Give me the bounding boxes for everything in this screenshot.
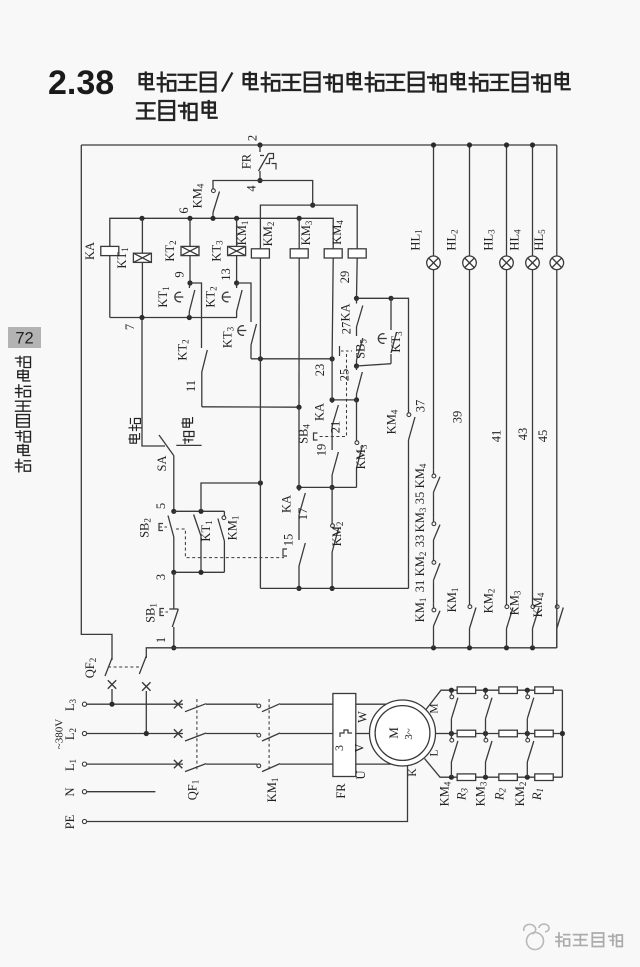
contactor KM1 main pole L2 bbox=[257, 733, 261, 737]
wire lamp branch HL3 bbox=[506, 145, 508, 256]
node rail6/KT1 bbox=[139, 216, 144, 221]
wire FR to motor W bbox=[356, 703, 387, 705]
resistor row1 stage 3 bbox=[457, 687, 476, 694]
wire node4 to KM4 contact branch bbox=[213, 181, 260, 185]
svg-text:17: 17 bbox=[296, 508, 310, 521]
wire FR to motor V bbox=[356, 733, 370, 735]
pushbutton SB2 (start) bbox=[173, 511, 175, 513]
svg-text:L1: L1 bbox=[63, 759, 78, 771]
sidebar page number 72 bbox=[8, 327, 41, 348]
contactor coil KM1 bbox=[251, 249, 269, 258]
title line 2 (Chinese) bbox=[137, 103, 155, 118]
node bus/HL3 chain bbox=[504, 645, 509, 650]
contact KM3 (aux, 25col down) bbox=[356, 400, 358, 441]
neutral terminal N bbox=[82, 790, 86, 794]
phase terminal L2 bbox=[82, 731, 86, 735]
svg-text:35: 35 bbox=[413, 492, 427, 505]
contact KA (27) bbox=[356, 298, 358, 303]
node A (29 junction) bbox=[354, 296, 359, 301]
node rotor row1 col KM4 bbox=[449, 688, 454, 693]
node rail5/KT1 contact bbox=[198, 509, 203, 514]
timer coil KT2 bbox=[181, 246, 199, 255]
svg-text:KA: KA bbox=[280, 495, 294, 513]
svg-text:1: 1 bbox=[154, 637, 168, 643]
thermal overload contact FR bbox=[259, 145, 261, 152]
svg-text:N: N bbox=[63, 787, 77, 796]
rotor mid wire bbox=[436, 733, 452, 735]
wire y=588 link rail bbox=[260, 587, 408, 589]
svg-text:33: 33 bbox=[413, 535, 427, 548]
node rail7/KT1 delay contact bbox=[187, 315, 192, 320]
svg-text:KM2: KM2 bbox=[482, 589, 497, 614]
watermark text (Chinese) bbox=[556, 933, 570, 947]
svg-text:2.38: 2.38 bbox=[48, 64, 114, 102]
svg-text:KT2: KT2 bbox=[204, 286, 219, 307]
node KM1-column / y359 junction bbox=[258, 356, 263, 361]
node rail6/KM2 bbox=[297, 216, 302, 221]
node rail7/KT1 branch bbox=[139, 315, 144, 320]
svg-text:27: 27 bbox=[340, 322, 354, 335]
svg-text:45: 45 bbox=[536, 430, 550, 443]
node rail6/KT2 bbox=[187, 216, 192, 221]
svg-text:23: 23 bbox=[313, 364, 327, 377]
node bus/HL1 chain bbox=[431, 645, 436, 650]
phase terminal L1 bbox=[82, 762, 86, 766]
node rotor row3 col KM2 bbox=[525, 775, 530, 780]
contact KM1 (self hold) bbox=[223, 511, 225, 516]
pushbutton SB5 bbox=[356, 327, 358, 336]
resistor row2 stage 2 bbox=[499, 730, 517, 737]
svg-text:SB2: SB2 bbox=[138, 518, 153, 538]
node 4 bbox=[257, 178, 262, 183]
pushbutton SB1 (stop, NC) bbox=[173, 572, 175, 603]
node 13 bbox=[234, 280, 239, 285]
contact KM3 on HL4 branch bbox=[532, 600, 534, 605]
svg-text:3: 3 bbox=[154, 574, 168, 580]
svg-text:29: 29 bbox=[338, 271, 352, 284]
svg-text:11: 11 bbox=[184, 380, 198, 392]
svg-text:QF2: QF2 bbox=[83, 658, 98, 678]
thermal relay FR box bbox=[333, 694, 356, 777]
wire KM3 coil to node 23 bbox=[332, 258, 333, 359]
node rail3/KT1 bbox=[198, 570, 203, 575]
contact KM2 rotor short (rows 1-2) bbox=[526, 690, 528, 695]
wire KT3 contact to node 23 bbox=[251, 358, 332, 360]
relay coil KA bbox=[101, 246, 119, 255]
wire FR to motor U bbox=[356, 763, 392, 765]
svg-text:KA: KA bbox=[83, 242, 97, 260]
svg-text:KT2: KT2 bbox=[163, 240, 178, 261]
svg-text:19: 19 bbox=[315, 444, 329, 457]
svg-text:15: 15 bbox=[282, 534, 296, 547]
contact SB4b (node25 down) bbox=[356, 366, 358, 370]
svg-text:V: V bbox=[353, 743, 367, 752]
wire link 23col-25col (y=400) bbox=[332, 399, 356, 401]
contact chain KM2 bbox=[433, 556, 435, 561]
svg-text:L3: L3 bbox=[63, 698, 78, 711]
wire lamp branch HL4 bbox=[532, 145, 534, 256]
resistor row1 stage 2 bbox=[499, 687, 517, 694]
phase terminal L3 bbox=[82, 702, 86, 706]
svg-text:KM4: KM4 bbox=[330, 220, 345, 245]
contact KM4 rotor short (rows 1-2) bbox=[450, 690, 452, 695]
svg-text:KM1: KM1 bbox=[226, 516, 241, 541]
wire KM4 coil to node A (29) bbox=[356, 258, 359, 299]
node 2 bbox=[257, 142, 262, 147]
contact KM4 rotor short (rows 2-3) bbox=[450, 734, 452, 739]
svg-text:KM1: KM1 bbox=[413, 598, 428, 623]
node rotor row1 col KM2 bbox=[525, 688, 530, 693]
wire phase L3 run bbox=[87, 703, 183, 705]
svg-text:KT2: KT2 bbox=[176, 339, 191, 360]
svg-text:KM3: KM3 bbox=[474, 781, 489, 806]
motor M 3-phase bbox=[370, 700, 436, 766]
wire node5 rail bbox=[174, 510, 225, 512]
signal lamp HL3 bbox=[500, 256, 514, 270]
selector switch SA bbox=[159, 435, 174, 456]
contact KA (17) bbox=[298, 487, 300, 491]
label auto (Chinese) bbox=[129, 419, 141, 444]
wire nodeA branch to KM4(37) column bbox=[391, 298, 409, 413]
svg-text:13: 13 bbox=[219, 268, 233, 281]
svg-text:6: 6 bbox=[177, 207, 191, 213]
node rotor row2 col KM2 bbox=[525, 731, 530, 736]
signal lamp HL2 bbox=[463, 256, 477, 270]
svg-text:FR: FR bbox=[334, 783, 348, 799]
node KM1 column y=483 bbox=[258, 480, 263, 485]
contact KM1 on HL2 branch bbox=[469, 600, 471, 605]
svg-text:21: 21 bbox=[329, 421, 343, 434]
contact KM4 (37 column) bbox=[407, 413, 411, 417]
svg-text:31: 31 bbox=[413, 580, 427, 593]
node KM2col y=487 bbox=[296, 485, 301, 490]
wire phase L2 run bbox=[87, 733, 183, 735]
svg-text:41: 41 bbox=[490, 430, 504, 443]
svg-text:M: M bbox=[386, 727, 401, 739]
svg-text:PE: PE bbox=[63, 814, 77, 829]
contact KM2 rotor short (rows 2-3) bbox=[526, 734, 528, 739]
svg-text:KM1: KM1 bbox=[265, 778, 280, 803]
wire coil feeder y=205 (KM1, KM4 coils) bbox=[260, 205, 357, 249]
contact chain KM1 bbox=[433, 604, 435, 608]
node rotor row3 col KM3 bbox=[483, 775, 488, 780]
node 1 bbox=[171, 645, 176, 650]
node on coil feeder y=205 bbox=[310, 203, 315, 208]
node rail6/KT3 bbox=[234, 216, 239, 221]
contact KT2 (11) bbox=[202, 350, 208, 372]
wire rotor star link (right) bbox=[561, 690, 563, 777]
svg-text:2: 2 bbox=[246, 135, 260, 141]
watermark logo bbox=[524, 924, 549, 949]
wire node13 to KT3 delayed contact bbox=[237, 283, 251, 322]
title line 1 (Chinese) bbox=[140, 73, 154, 90]
resistor row3 stage 3 bbox=[457, 774, 476, 781]
contactor coil KM4 bbox=[348, 249, 366, 258]
node bus/HL3 bbox=[504, 142, 509, 147]
svg-text:SA: SA bbox=[155, 456, 169, 472]
wire left frame vertical bbox=[81, 145, 112, 660]
contact KA (21) bbox=[331, 400, 333, 403]
timer coil KT1 bbox=[133, 253, 151, 262]
wire KT3 coil to node 13 bbox=[236, 256, 238, 283]
svg-text:KM4: KM4 bbox=[531, 592, 546, 617]
svg-text:KT3: KT3 bbox=[221, 326, 236, 348]
svg-text:KM4: KM4 bbox=[413, 463, 428, 488]
wire KT1 coil to rail 7 bbox=[141, 263, 143, 318]
wire KM1 coil column (long) bbox=[259, 258, 261, 589]
pushbutton SB4 bbox=[332, 452, 338, 475]
node star mid bbox=[560, 731, 565, 736]
signal lamp HL1 bbox=[427, 256, 441, 270]
contact KM3 rotor short (rows 1-2) bbox=[485, 690, 487, 695]
node KT3 branch top bbox=[388, 296, 393, 301]
svg-text:SB1: SB1 bbox=[144, 603, 159, 623]
svg-text:KM2: KM2 bbox=[330, 522, 345, 547]
svg-text:43: 43 bbox=[516, 428, 530, 441]
wire rotor row 2 bbox=[451, 733, 562, 735]
svg-text:37: 37 bbox=[414, 400, 428, 413]
node SB3 bottom bbox=[296, 586, 301, 591]
node 5 bbox=[171, 509, 176, 514]
contact KM2 on HL3 branch bbox=[506, 600, 508, 605]
contactor coil KM3 bbox=[324, 249, 342, 258]
mech linkage SB2 (dashed) bbox=[176, 529, 284, 558]
wire rotor row 1 bbox=[451, 689, 562, 691]
node 23col y=400 bbox=[330, 397, 335, 402]
contactor KM1 main pole L3 bbox=[257, 704, 261, 708]
svg-text:KM3: KM3 bbox=[413, 507, 428, 532]
node rotor row2 col KM3 bbox=[483, 731, 488, 736]
circuit breaker QF2 (2-pole) bbox=[105, 658, 112, 676]
node rotor row2 col KM4 bbox=[449, 731, 454, 736]
mech linkage QF1 (dashed) bbox=[196, 699, 198, 771]
delayed contact KT3 bbox=[238, 326, 244, 336]
svg-text:HL2: HL2 bbox=[445, 229, 460, 250]
wire neutral N bbox=[87, 791, 156, 793]
svg-text:KM2: KM2 bbox=[413, 552, 428, 577]
node rotor row3 col KM4 bbox=[449, 775, 454, 780]
node SB4 bottom (y=487) bbox=[330, 485, 335, 490]
node KM2 aux bottom bbox=[330, 586, 335, 591]
svg-text:W: W bbox=[356, 711, 370, 723]
pushbutton SB3 bbox=[299, 543, 305, 566]
svg-text:KM4: KM4 bbox=[438, 781, 453, 806]
svg-text:4: 4 bbox=[245, 185, 259, 192]
node 25-KM3 link right bbox=[354, 397, 359, 402]
signal lamp HL5 bbox=[550, 256, 564, 270]
mech linkage SB4/SB5 (dashed) bbox=[318, 354, 347, 437]
breaker QF1 pole L1 bbox=[174, 760, 182, 768]
svg-text:L: L bbox=[429, 749, 441, 756]
breaker QF1 pole L2 bbox=[174, 729, 182, 737]
svg-text:KT1: KT1 bbox=[156, 286, 171, 307]
delayed contact KT2 (node13 to rail7) bbox=[236, 283, 238, 288]
node bus/HL2 bbox=[467, 142, 472, 147]
node 25 bbox=[354, 363, 359, 368]
svg-text:U: U bbox=[354, 770, 368, 779]
wire lamp branch HL2 bbox=[469, 145, 471, 256]
wire rail 6 (coil rail) bbox=[110, 218, 333, 249]
svg-text:39: 39 bbox=[451, 411, 465, 424]
svg-text:FR: FR bbox=[240, 153, 254, 169]
resistor row3 stage 1 bbox=[535, 774, 554, 781]
breaker QF1 pole L3 bbox=[174, 700, 182, 708]
svg-text:KM3: KM3 bbox=[508, 590, 523, 615]
wire top bus (phase, node 2 rail) bbox=[81, 144, 557, 146]
svg-text:QF1: QF1 bbox=[186, 780, 201, 800]
svg-text:3~: 3~ bbox=[403, 728, 415, 740]
svg-text:KM4: KM4 bbox=[385, 409, 400, 434]
node QF2/L2 bbox=[144, 731, 149, 736]
wire lamp branch HL5 bbox=[556, 145, 558, 256]
svg-text:KM2: KM2 bbox=[261, 222, 276, 247]
wire node4 right to KM1/KM4 coil feeder bbox=[260, 181, 313, 206]
svg-text:K: K bbox=[407, 768, 419, 777]
mech linkage QF2 (dashed) bbox=[108, 666, 142, 668]
svg-text:HL5: HL5 bbox=[532, 229, 547, 251]
wire rail7 down to SA (auto position) bbox=[142, 318, 165, 447]
node QF2/L3 bbox=[109, 702, 114, 707]
svg-text:7: 7 bbox=[123, 324, 137, 330]
node 3 bbox=[171, 570, 176, 575]
wire bottom control bus bbox=[146, 648, 557, 658]
wire KT3 branch bottom to node25 bbox=[357, 364, 392, 366]
node bus/HL4 chain bbox=[530, 645, 535, 650]
svg-text:KM4: KM4 bbox=[191, 183, 206, 208]
wire rotor row 3 bbox=[451, 776, 562, 778]
wire y=487 link bbox=[299, 486, 357, 488]
svg-text:KM1: KM1 bbox=[235, 221, 250, 246]
svg-text:R3: R3 bbox=[455, 787, 470, 801]
contact KM3 rotor short (rows 2-3) bbox=[485, 734, 487, 739]
delayed contact KT3 (parallel) bbox=[390, 298, 392, 330]
svg-text:72: 72 bbox=[15, 330, 33, 348]
svg-text:KT1: KT1 bbox=[199, 520, 214, 541]
wire KT1-top link to KM1 column (y=483) bbox=[201, 483, 260, 511]
resistor row3 stage 2 bbox=[499, 774, 517, 781]
node bus/HL2 chain bbox=[467, 645, 472, 650]
wire phase L1 run bbox=[87, 763, 183, 765]
svg-text:~380V: ~380V bbox=[54, 719, 66, 749]
resistor row2 stage 3 bbox=[457, 730, 476, 737]
contactor KM1 main pole L1 bbox=[257, 764, 261, 768]
wire nodeA to KT3 parallel branch bbox=[357, 297, 392, 299]
wire KT2 coil to node 9 bbox=[189, 256, 191, 283]
svg-text:3: 3 bbox=[332, 745, 346, 751]
label manual (Chinese) bbox=[182, 418, 194, 444]
resistor row2 stage 1 bbox=[535, 730, 554, 737]
svg-text:KM3: KM3 bbox=[354, 444, 369, 469]
contact KM4 (NO, feeds rail 6) bbox=[212, 184, 214, 189]
svg-text:KM1: KM1 bbox=[445, 588, 460, 613]
svg-text:KT3: KT3 bbox=[210, 240, 225, 262]
svg-text:KT3: KT3 bbox=[389, 331, 404, 353]
contact KT1 (instant, node5-node3) bbox=[194, 515, 201, 537]
node bus/HL1 bbox=[431, 142, 436, 147]
node rail6/KM4 contact bbox=[210, 216, 215, 221]
wire node9 to KT2(11) branch bbox=[190, 283, 202, 348]
contact chain KM3 bbox=[433, 518, 435, 522]
wire lamp branch HL1 bbox=[433, 145, 435, 256]
earth terminal PE bbox=[82, 819, 86, 823]
wire KM2 coil column down bbox=[298, 258, 300, 407]
svg-text:KA: KA bbox=[313, 403, 327, 421]
svg-text:R1: R1 bbox=[530, 788, 545, 801]
contact KM4 on HL5 branch bbox=[556, 600, 558, 605]
svg-text:9: 9 bbox=[173, 271, 187, 277]
contact KM2 (aux) bbox=[331, 487, 333, 524]
svg-text:SB5: SB5 bbox=[354, 339, 369, 359]
rotor terminal L wire bbox=[425, 759, 452, 778]
wire node23 down bbox=[331, 359, 333, 400]
node KM2col/KT2-11 bbox=[296, 405, 301, 410]
svg-text:KA: KA bbox=[339, 303, 353, 321]
wire KT2(11) to KM2 column bbox=[202, 406, 299, 408]
svg-text:R2: R2 bbox=[493, 787, 508, 801]
wire lamp branch HL5 lower bbox=[556, 600, 558, 648]
rotor terminal M wire bbox=[426, 690, 451, 709]
signal lamp HL4 bbox=[526, 256, 540, 270]
node rotor row1 col KM3 bbox=[483, 688, 488, 693]
mech linkage KM1 main (dashed) bbox=[268, 699, 270, 771]
wire node3 rail bbox=[174, 571, 225, 573]
timer coil KT3 bbox=[228, 246, 246, 255]
resistor row1 stage 1 bbox=[535, 687, 554, 694]
sidebar vertical book title (Chinese) bbox=[16, 356, 31, 367]
node bus/HL4 bbox=[530, 142, 535, 147]
svg-text:KM2: KM2 bbox=[513, 782, 528, 807]
node 9 bbox=[187, 280, 192, 285]
svg-text:5: 5 bbox=[154, 503, 168, 509]
svg-text:HL3: HL3 bbox=[482, 229, 497, 251]
delayed contact KT1 (node9 to rail7) bbox=[188, 283, 191, 288]
node 23 bbox=[330, 356, 335, 361]
svg-text:M: M bbox=[429, 703, 441, 713]
svg-text:HL4: HL4 bbox=[508, 229, 523, 251]
wire PE to motor frame bbox=[87, 766, 408, 822]
svg-text:25: 25 bbox=[338, 369, 352, 382]
wire KA coil to rail 7 bbox=[109, 256, 111, 318]
wire rail 7 bbox=[110, 317, 237, 319]
svg-text:HL1: HL1 bbox=[409, 229, 424, 250]
fixed contact manual position bbox=[176, 444, 201, 446]
contactor coil KM2 bbox=[290, 249, 308, 258]
contact chain on HL1 branch: KM4 bbox=[433, 470, 435, 474]
svg-text:KM3: KM3 bbox=[299, 220, 314, 245]
